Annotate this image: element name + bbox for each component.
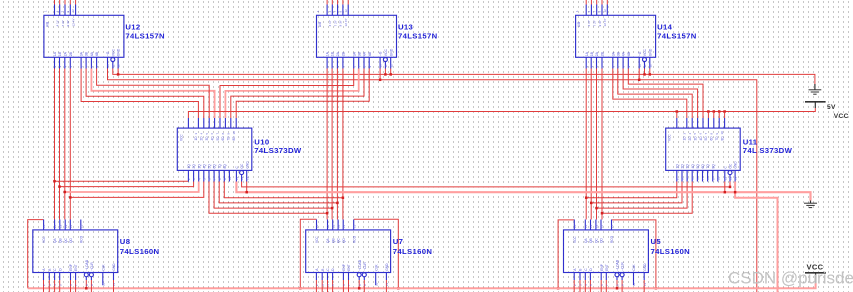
junction node U11 Q4 on U5 bus [601,212,604,215]
wire: bus vertical U8 output QA up to U12 input 1A [54,69,56,220]
svg-text:11: 11 [235,177,239,180]
svg-text:QB: QB [331,238,335,243]
svg-text:1A: 1A [53,51,57,56]
svg-text:12: 12 [64,224,68,228]
svg-text:2B: 2B [69,51,73,56]
wire: VCC tie stub to U11 D5 [707,112,709,119]
svg-text:4A: 4A [363,51,367,56]
wire: U14 output Y4 to U11 data input D4 [628,69,703,119]
svg-text:VCC: VCC [643,48,647,56]
wire: bus vertical U7 output QD up to U13 input 4A [342,69,344,220]
svg-text:12: 12 [603,9,607,13]
svg-text:U14: U14 [657,23,673,32]
svg-text:ENP: ENP [342,263,346,271]
svg-text:3B: 3B [85,51,89,56]
svg-text:U7: U7 [393,237,404,246]
wire: U5 LOAD pin to rail junction [616,280,618,288]
wire: U7 bottom pin 1 drop to bottom edge [321,280,323,292]
IC U8 74LS160N body [33,220,118,287]
svg-text:3A: 3A [611,51,615,56]
svg-text:4 1Y: 4 1Y [56,20,60,26]
svg-text:13: 13 [331,224,335,228]
wire: bus vertical U8 output QB up to U12 input 2A [59,69,61,220]
svg-text:ENT: ENT [347,264,351,271]
svg-text:QD: QD [342,238,346,243]
svg-text:12: 12 [240,176,244,180]
svg-text:12 4Y: 12 4Y [344,18,348,26]
svg-text:7D: 7D [715,136,719,141]
wire: latch clock net y192 from U10 C pin to ground at right (highlighted) [236,182,810,201]
wire: U10 output Q1 left to feedback bus [55,180,189,182]
svg-text:14: 14 [53,224,57,228]
svg-text:~CLR: ~CLR [90,262,94,271]
svg-text:12: 12 [71,9,75,13]
svg-text:1D: 1D [683,136,687,141]
junction node Q2 feedback [58,185,61,188]
svg-text:4Q: 4Q [691,164,695,169]
svg-text:RCO: RCO [352,235,356,243]
wire: U14 output Y1 to U11 data input D1 [613,69,687,119]
svg-text:9 3Y: 9 3Y [598,20,602,26]
svg-text:CLK: CLK [632,264,636,271]
junction node Q4 feedback [69,196,72,199]
wire: U12 output Y1 to U10 data input D1 [81,69,198,119]
svg-text:CLK: CLK [374,264,378,271]
svg-text:GND: GND [112,263,116,271]
svg-text:74LS160N: 74LS160N [120,247,160,256]
junction node U11 Q1 on U5 bus [585,196,588,199]
svg-text:GND: GND [245,161,249,169]
svg-text:7Q: 7Q [706,164,710,169]
svg-text:2A: 2A [595,51,599,56]
svg-text:3Q: 3Q [197,164,201,169]
svg-text:VCC: VCC [834,113,849,120]
svg-text:QB: QB [58,238,62,243]
IC U7 74LS160N body [306,220,391,287]
svg-text:10: 10 [632,282,636,286]
svg-text:QD: QD [600,238,604,243]
junction at U11 pin on y187 line [729,186,732,189]
svg-text:7 2Y: 7 2Y [593,20,597,26]
ground symbol right middle [804,201,817,208]
wire: U11 GND pin down right to x777 vertical to bottom edge [735,182,777,292]
svg-text:3A: 3A [352,51,356,56]
wire: U14 output Y2 to U11 data input D2 [618,69,692,119]
wire: bottom VCC supply rail y288 (highlighted) [28,283,816,288]
wire: U8 bottom pin 2 drop to bottom edge [54,280,56,292]
svg-text:4B: 4B [368,51,372,56]
junction U5 ENT at rail [655,287,658,290]
wire: U5 bottom pin 0 drop to bottom edge [573,280,575,292]
svg-text:10: 10 [720,131,724,135]
wire: select net row y80 from U12 down right side x757 to bottom edge [108,69,757,292]
junction U10 pin 246.7 on y192 [246,182,248,193]
svg-text:GND: GND [734,161,738,169]
junction U7 ENT at rail [397,287,400,290]
wire: bus vertical U7 output QB up to U13 input 2A [331,69,333,220]
svg-text:16: 16 [42,224,46,228]
wire: U5 bottom pin 7 drop to bottom edge [643,280,645,292]
svg-text:1B: 1B [58,51,62,56]
svg-text:13: 13 [589,224,593,228]
junction U11 data input D7 tied to VCC line [718,110,721,113]
wire: U7 ENT pin right corner down to supply rail [354,219,399,288]
svg-text:U12: U12 [125,23,140,32]
svg-text:U5: U5 [651,237,662,246]
svg-text:RCO: RCO [610,235,614,243]
wire: U12 output Y3 to U10 data input D3 [91,69,214,119]
svg-text:~G: ~G [638,51,642,56]
svg-text:2Q: 2Q [681,164,685,169]
svg-text:5Q: 5Q [696,164,700,169]
wire: U8 bottom pin 6 drop to bottom edge [90,280,92,292]
svg-text:4A: 4A [622,51,626,56]
wire: VCC distribution line y111 from U10 pin1 to 5V source [188,108,815,118]
svg-text:74LS160N: 74LS160N [393,247,433,256]
svg-text:12: 12 [337,224,341,228]
wire: U13 output Y2 to U10 data input D6 [225,69,358,119]
junction node Q7 on U7 bus [336,202,339,205]
wire: U12 output Y4 to U10 data input D4 [97,69,210,119]
wire: bus vertical U5 output QD up to U14 input 4A [601,69,603,220]
junction U11 data input D5 tied to VCC line [707,110,710,113]
svg-text:10: 10 [101,282,105,286]
junction on select row [638,79,641,82]
wire: U10 output Q7 right to U7 bus [219,182,337,203]
wire: U11 output Q4 left to U5 bus [602,182,692,214]
junction U5 ENP at rail [557,287,560,290]
junction on select row [379,79,382,82]
svg-text:GND: GND [389,48,393,56]
wire: U13 output Y3 to U10 data input D7 [231,69,364,119]
svg-text:74LS157N: 74LS157N [398,32,438,41]
svg-text:3B: 3B [616,51,620,56]
5V battery V1 with ground at top right [805,84,826,108]
svg-text:12 4Y: 12 4Y [71,18,75,26]
junction node Q8 on U7 bus [342,196,345,199]
svg-text:1A: 1A [585,51,589,56]
wire: bus vertical U5 output QA up to U14 input 1A [585,69,587,220]
wire: U5 bottom pin 1 drop to bottom edge [579,280,581,292]
svg-text:OC: OC [729,163,733,168]
svg-text:16: 16 [573,224,577,228]
junction at U12 pin 16 [117,73,120,76]
svg-text:QD: QD [69,238,73,243]
wire: bus vertical U8 output QD up to U12 input 4A [69,69,71,220]
wire: U8 ENP pin left corner down to supply rail [28,220,44,289]
wire: U7 bottom pin 2 drop to bottom edge [327,280,329,292]
svg-text:GND: GND [643,263,647,271]
svg-text:74LS157N: 74LS157N [125,32,165,41]
IC U12 74LS157N body [43,5,124,69]
svg-text:4B: 4B [627,51,631,56]
svg-text:ENT: ENT [605,264,609,271]
svg-text:15: 15 [352,224,356,228]
svg-text:7Q: 7Q [218,164,222,169]
svg-text:4D: 4D [210,136,214,141]
wire: U10 pin OC to U11 pin row y187 [242,182,730,187]
junction U11 GND pin crossing y192 [734,191,737,194]
wire: U5 ENP pin left corner down to supply rail [558,220,574,288]
svg-text:7 2Y: 7 2Y [61,20,65,26]
IC U14 74LS157N body [575,5,656,69]
svg-text:9 3Y: 9 3Y [339,20,343,26]
svg-text:A/B: A/B [577,22,581,27]
svg-text:VCC: VCC [179,134,183,141]
svg-text:U10: U10 [254,138,269,147]
svg-text:12: 12 [389,64,393,68]
svg-text:U11: U11 [743,138,758,147]
svg-text:74LS160N: 74LS160N [651,247,691,256]
wire: U10 output Q8 right to U7 bus [224,182,343,198]
wire: U10 output Q2 left to feedback bus [60,182,194,187]
svg-text:CLK: CLK [101,264,105,271]
svg-text:8D: 8D [720,136,724,141]
svg-text:11: 11 [643,64,647,67]
wire: U8 bottom pin 5 drop to bottom edge [75,280,77,292]
wire: U8 bottom pin 1 drop to bottom edge [48,280,50,292]
svg-text:13: 13 [734,176,738,180]
svg-text:11: 11 [723,177,727,180]
svg-text:12: 12 [648,64,652,68]
wire: U10 output Q4 left to feedback bus [70,182,204,198]
svg-text:4D: 4D [699,136,703,141]
svg-text:VCC: VCC [668,134,672,141]
svg-text:QC: QC [337,238,341,243]
svg-text:ENP: ENP [69,263,73,271]
wire: U7 bottom pin 7 drop to bottom edge [385,280,387,292]
wire: U5 bottom pin 6 drop to bottom edge [621,280,623,292]
svg-text:OC: OC [240,163,244,168]
svg-text:3D: 3D [205,136,209,141]
wire: U5 bottom pin 3 drop to bottom edge [589,280,591,292]
wire: bus vertical U7 output QA up to U13 input 1A [326,69,328,220]
svg-text:74LS373DW: 74LS373DW [254,146,302,155]
wire: output risers of U12 to top edge [54,0,56,5]
svg-text:74LS157N: 74LS157N [657,32,697,41]
svg-text:12: 12 [344,9,348,13]
svg-text:9 3Y: 9 3Y [66,20,70,26]
wire: U7 ENP pin left corner down to supply rail [300,219,316,288]
junction bubble-pin on enable row [643,73,646,76]
junction bubble-pin on enable row [384,73,387,76]
wire: U7 LOAD pin to rail junction [358,280,360,288]
svg-text:11: 11 [600,225,604,228]
wire: U7 bottom pin 6 drop to bottom edge [363,280,365,292]
svg-text:2D: 2D [200,136,204,141]
junction node Q3 feedback [64,191,67,194]
svg-text:GND: GND [648,48,652,56]
svg-text:13: 13 [58,224,62,228]
svg-text:8D: 8D [232,136,236,141]
svg-text:QC: QC [595,238,599,243]
svg-text:4 1Y: 4 1Y [587,20,591,26]
svg-text:3A: 3A [80,51,84,56]
wire: bus vertical U5 output QB up to U14 input 2A [590,69,592,220]
svg-text:3B: 3B [357,51,361,56]
svg-text:10: 10 [716,176,720,180]
wire: output risers of U13 to top edge [326,0,328,5]
svg-text:8Q: 8Q [711,164,715,169]
svg-text:12: 12 [729,176,733,180]
wire: enable net row y74 from U12 pin G to 5V battery, with junctions [113,69,815,85]
junction U7 ENP at rail [299,287,302,290]
svg-text:7D: 7D [227,136,231,141]
svg-text:6D: 6D [221,136,225,141]
wire: U8 bottom pin 0 drop to bottom edge [43,280,45,292]
svg-text:~LOAD: ~LOAD [616,259,620,271]
svg-text:15: 15 [610,224,614,228]
wire: U11 output Q3 left to U5 bus [597,182,688,209]
svg-text:GND: GND [385,263,389,271]
svg-text:VCC: VCC [42,236,46,243]
svg-text:1B: 1B [590,51,594,56]
svg-text:A/B: A/B [45,22,49,27]
svg-text:3Q: 3Q [686,164,690,169]
svg-text:15: 15 [79,224,83,228]
svg-text:~LOAD: ~LOAD [85,259,89,271]
svg-text:1D: 1D [194,136,198,141]
wire: bus vertical U5 output QC up to U14 input 3A [596,69,598,220]
svg-text:2D: 2D [688,136,692,141]
svg-text:10: 10 [379,64,383,68]
svg-text:11: 11 [384,64,388,67]
svg-text:~G: ~G [106,51,110,56]
wire: U12 output Y2 to U10 data input D2 [86,69,204,119]
junction node U11 Q3 on U5 bus [595,207,598,210]
svg-text:10: 10 [106,64,110,68]
svg-text:~CLR: ~CLR [621,262,625,271]
svg-text:VCC: VCC [315,236,319,243]
wire: U5 bottom pin 2 drop to bottom edge [584,280,586,292]
wire: U7 bottom pin 0 drop to bottom edge [315,280,317,292]
svg-text:7 2Y: 7 2Y [333,20,337,26]
IC U5 74LS160N body [564,220,649,287]
svg-text:11: 11 [385,283,389,286]
svg-text:14: 14 [584,224,588,228]
wire: U10 output Q6 right to U7 bus [214,182,332,209]
wire: U7 bottom pin 3 drop to bottom edge [332,280,334,292]
svg-text:2A: 2A [63,51,67,56]
svg-text:A/B: A/B [318,22,322,27]
wire: VCC tie stub to U11 D6 [713,112,715,119]
IC U11 74LS373DW body [666,118,741,182]
svg-text:13: 13 [245,176,249,180]
svg-text:1Q: 1Q [187,164,191,169]
VCC power symbol bottom right [805,273,826,283]
svg-text:~LOAD: ~LOAD [358,259,362,271]
wire: U13 output Y4 to U10 data input D8 [236,69,369,119]
wire: U8 bottom pin 7 drop to bottom edge [113,280,115,292]
wire: output risers of U14 to top edge [585,0,587,5]
svg-text:4Q: 4Q [202,164,206,169]
wire: U10 output Q5 right to U7 bus [209,182,327,214]
svg-text:1Q: 1Q [675,164,679,169]
svg-text:3D: 3D [693,136,697,141]
wire: U7 bottom pin 5 drop to bottom edge [348,280,350,292]
junction node U11 Q2 on U5 bus [590,202,593,205]
svg-text:QB: QB [589,238,593,243]
svg-text:11: 11 [342,225,346,228]
wire: U14 output Y3 to U11 data input D3 [623,69,698,119]
wire: U11 output Q1 left to U5 bus [586,182,677,198]
svg-text:10: 10 [374,282,378,286]
svg-text:11: 11 [643,283,647,286]
svg-text:11: 11 [111,64,115,67]
wire: U11 output Q2 left to U5 bus [591,182,682,203]
wire: U8 bottom pin 4 drop to bottom edge [70,280,72,292]
junction U11 data input D6 tied to VCC line [713,110,716,113]
svg-text:2B: 2B [601,51,605,56]
svg-text:VCC: VCC [573,236,577,243]
svg-text:RCO: RCO [79,235,83,243]
svg-text:8Q: 8Q [223,164,227,169]
svg-text:1B: 1B [331,51,335,56]
svg-text:QC: QC [64,238,68,243]
junction node Q5 on U7 bus [326,212,329,215]
svg-text:74L S373DW: 74L S373DW [743,146,793,155]
wire: U8 bottom pin 3 drop to bottom edge [59,280,61,292]
svg-text:12: 12 [117,64,121,68]
svg-text:16: 16 [315,224,319,228]
svg-text:6Q: 6Q [213,164,217,169]
wire: U10 output Q3 left to feedback bus [65,182,199,193]
svg-text:GND: GND [117,48,121,56]
wire: bus vertical U8 output QC up to U12 input 3A [64,69,66,220]
svg-text:5V: 5V [827,104,836,111]
svg-text:6D: 6D [710,136,714,141]
svg-text:2B: 2B [342,51,346,56]
svg-text:2Q: 2Q [192,164,196,169]
junction last-pin on enable row [649,73,652,76]
svg-text:10: 10 [638,64,642,68]
svg-text:5D: 5D [704,136,708,141]
svg-text:12 4Y: 12 4Y [603,18,607,26]
svg-text:6Q: 6Q [701,164,705,169]
svg-text:5D: 5D [216,136,220,141]
junction U11 data input D8 tied to VCC line [723,110,726,113]
svg-text:14: 14 [326,224,330,228]
wire: U5 bottom pin 4 drop to bottom edge [600,280,602,292]
svg-text:10: 10 [232,131,236,135]
svg-text:VCC: VCC [111,48,115,56]
svg-text:~CLR: ~CLR [363,262,367,271]
junction U11 C pin on y192 [724,182,726,193]
svg-text:1A: 1A [326,51,330,56]
svg-text:11: 11 [69,225,73,228]
svg-text:U8: U8 [120,237,131,246]
svg-text:12: 12 [595,224,599,228]
svg-text:ENP: ENP [600,263,604,271]
svg-text:ENT: ENT [74,264,78,271]
svg-text:11: 11 [112,283,116,286]
junction node Q1 feedback [53,180,56,183]
wire: U7 bottom pin 4 drop to bottom edge [342,280,344,292]
wire: bus vertical U7 output QC up to U13 input 3A [336,69,338,220]
IC U10 74LS373DW body [177,118,252,182]
wire: U5 bottom pin 5 drop to bottom edge [605,280,607,292]
junction U11 pin1 on VCC line [676,110,679,113]
wire: U8 LOAD pin to rail junction [85,280,87,288]
svg-text:4 1Y: 4 1Y [328,20,332,26]
wire: VCC tie stub to U11 D8 [724,112,726,119]
svg-text:~G: ~G [379,51,383,56]
svg-text:4A: 4A [90,51,94,56]
svg-text:U13: U13 [398,23,413,32]
svg-text:10: 10 [228,176,232,180]
svg-text:CSDN @purisdev: CSDN @purisdev [728,269,853,288]
wire: U13 output Y1 to U10 data input D5 [220,69,354,119]
